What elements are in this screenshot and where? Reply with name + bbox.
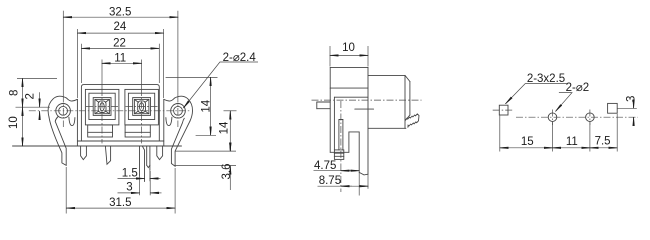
svg-text:11: 11 — [566, 136, 578, 148]
svg-text:4.75: 4.75 — [314, 160, 336, 172]
svg-text:2: 2 — [24, 93, 36, 99]
svg-text:7.5: 7.5 — [595, 136, 611, 148]
svg-text:32.5: 32.5 — [109, 7, 131, 19]
svg-text:2-3x2.5: 2-3x2.5 — [527, 73, 565, 85]
svg-text:14: 14 — [219, 121, 231, 134]
svg-text:2-⌀2: 2-⌀2 — [566, 82, 590, 94]
svg-text:10: 10 — [342, 42, 355, 54]
svg-text:3.6: 3.6 — [221, 164, 233, 180]
svg-text:3: 3 — [126, 182, 132, 194]
svg-text:8: 8 — [9, 90, 21, 96]
svg-text:22: 22 — [113, 38, 126, 50]
svg-text:1.5: 1.5 — [122, 167, 138, 179]
svg-text:15: 15 — [521, 136, 534, 148]
svg-text:31.5: 31.5 — [109, 197, 131, 209]
svg-text:8.75: 8.75 — [319, 175, 341, 187]
svg-text:2-⌀2.4: 2-⌀2.4 — [223, 52, 257, 64]
svg-text:11: 11 — [114, 53, 126, 65]
svg-text:14: 14 — [201, 99, 213, 112]
svg-text:3: 3 — [626, 96, 638, 102]
svg-text:10: 10 — [8, 116, 20, 129]
svg-text:24: 24 — [114, 21, 127, 33]
